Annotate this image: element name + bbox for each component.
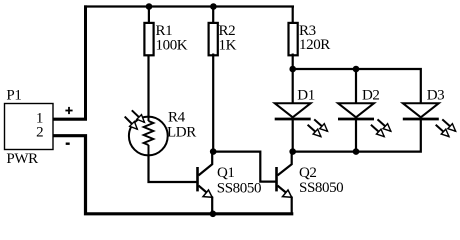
- wire top rail corner down to R3: [292, 7, 294, 24]
- svg-text:100K: 100K: [156, 37, 188, 53]
- LED D3: [403, 103, 439, 119]
- emitter arrowhead: [283, 190, 292, 197]
- svg-text:D1: D1: [297, 88, 315, 104]
- wire LDR bottom to Q1 base: [149, 155, 197, 182]
- base bar: [196, 167, 199, 191]
- wire R2 column upper: [212, 7, 214, 24]
- wire top rail (+V): [84, 5, 294, 7]
- svg-text:PWR: PWR: [6, 151, 38, 167]
- svg-text:2: 2: [36, 124, 43, 140]
- base bar: [275, 167, 278, 191]
- svg-text:120R: 120R: [299, 37, 330, 53]
- wire LED anode rail: [293, 69, 421, 104]
- transistor Q1: [198, 152, 213, 214]
- wire R2 bottom to Q1 collector node: [212, 54, 214, 152]
- svg-text:D2: D2: [362, 88, 380, 104]
- svg-text:SS8050: SS8050: [299, 180, 343, 196]
- connector P1 box: [5, 104, 54, 150]
- wire P1 pin2 minus to bottom rail: [53, 136, 293, 214]
- LED D1 emission arrows: [308, 119, 328, 136]
- resistor R2: [209, 23, 218, 55]
- svg-text:1K: 1K: [219, 37, 237, 53]
- LED D2: [338, 69, 374, 152]
- collector: [199, 152, 213, 176]
- resistor R3: [289, 23, 298, 55]
- node dot top rail at R1: [146, 3, 153, 10]
- LDR light arrow 1: [132, 110, 145, 122]
- LED D3 emission arrows: [436, 119, 456, 136]
- svg-text:LDR: LDR: [167, 125, 196, 141]
- node dot Q1 collector / R2: [210, 148, 217, 155]
- node dot Q2 collector / D1 cathode: [289, 148, 296, 155]
- wire left vertical from P1 plus up to top rail: [84, 5, 87, 119]
- node dot top rail at R2: [210, 3, 217, 10]
- wire R1 bottom to LDR: [147, 55, 149, 118]
- svg-text:SS8050: SS8050: [217, 181, 261, 197]
- plus sign: [65, 107, 72, 114]
- node dot D2 anode: [353, 66, 360, 73]
- wire LED cathode rail: [293, 120, 421, 152]
- minus sign: [66, 142, 70, 144]
- node dot bottom rail at Q1 emitter: [210, 211, 217, 218]
- svg-text:D3: D3: [427, 88, 445, 104]
- wire Q1 collector node to Q2 base: [213, 152, 275, 182]
- resistor R1: [144, 23, 153, 55]
- LED D1: [275, 69, 311, 152]
- svg-text:R4: R4: [168, 109, 186, 125]
- emitter: [199, 186, 213, 214]
- emitter arrowhead: [203, 190, 212, 197]
- wire R3 bottom to D1 anode node: [292, 54, 294, 71]
- LED D2 emission arrows: [371, 119, 391, 136]
- LDR light arrow 2: [125, 117, 138, 130]
- photoresistor R4 LDR: [129, 117, 168, 156]
- transistor Q2: [277, 152, 292, 214]
- collector: [278, 152, 292, 176]
- svg-text:Q2: Q2: [299, 165, 317, 181]
- node dot D1 anode / R3: [289, 66, 296, 73]
- wire P1 pin1 plus horizontal: [53, 118, 87, 121]
- svg-text:Q1: Q1: [217, 165, 235, 181]
- emitter: [278, 186, 292, 214]
- node dot D2 cathode: [353, 148, 360, 155]
- wire R1 column upper: [148, 7, 150, 25]
- svg-text:P1: P1: [6, 88, 21, 104]
